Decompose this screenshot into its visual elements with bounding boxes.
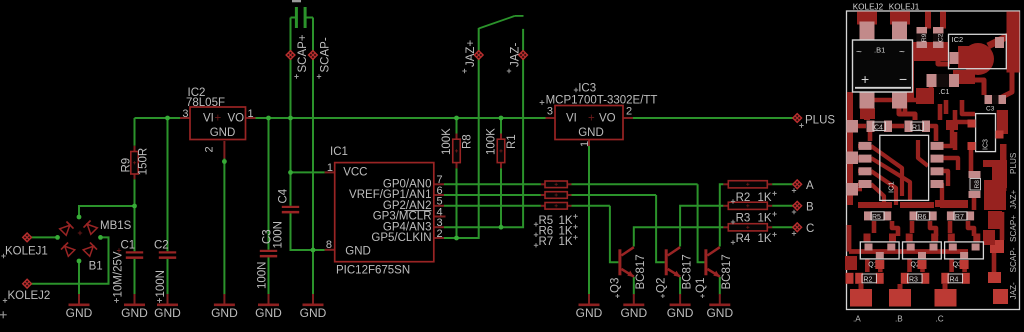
svg-text:GND: GND <box>706 306 733 320</box>
svg-text:8: 8 <box>326 239 332 251</box>
svg-text:+: + <box>588 113 595 125</box>
svg-text:PLUS: PLUS <box>805 115 835 127</box>
svg-text:C4: C4 <box>874 125 883 132</box>
svg-text:78L05F: 78L05F <box>186 97 225 109</box>
svg-text:GND: GND <box>121 306 148 320</box>
svg-text:GND: GND <box>667 306 694 320</box>
svg-text:+: + <box>215 113 222 125</box>
svg-text:MCP1700T-3302E/TT: MCP1700T-3302E/TT <box>546 95 658 107</box>
svg-text:SCAP+: SCAP+ <box>1009 215 1018 242</box>
svg-text:R7: R7 <box>955 214 964 221</box>
svg-text:R3: R3 <box>909 277 918 284</box>
svg-text:GND: GND <box>255 306 282 320</box>
svg-text:GND: GND <box>578 127 604 139</box>
svg-text:.A: .A <box>853 315 861 324</box>
svg-text:VO: VO <box>228 113 245 125</box>
svg-text:R2: R2 <box>736 192 751 204</box>
svg-text:GND: GND <box>620 306 647 320</box>
svg-text:100N: 100N <box>155 270 167 298</box>
svg-text:VO: VO <box>599 113 616 125</box>
svg-text:+: + <box>861 71 869 87</box>
svg-text:~: ~ <box>899 47 905 58</box>
svg-text:2: 2 <box>626 106 632 118</box>
svg-text:R2: R2 <box>863 277 872 284</box>
svg-text:150R: 150R <box>138 148 150 176</box>
svg-text:B: B <box>806 202 814 214</box>
svg-text:KOLEJ1: KOLEJ1 <box>5 245 48 257</box>
svg-text:A: A <box>806 180 814 192</box>
svg-text:R4: R4 <box>950 277 959 284</box>
svg-text:R5: R5 <box>872 214 881 221</box>
svg-text:IC3: IC3 <box>578 83 596 95</box>
svg-text:JAZ+: JAZ+ <box>1009 189 1018 209</box>
svg-text:IC2: IC2 <box>952 35 964 44</box>
svg-text:R9: R9 <box>921 33 928 42</box>
svg-text:100N: 100N <box>257 262 269 290</box>
svg-text:100N: 100N <box>273 221 285 249</box>
svg-text:.C1: .C1 <box>939 89 950 96</box>
svg-text:SCAP+: SCAP+ <box>297 34 309 72</box>
svg-text:KOLEJ2: KOLEJ2 <box>853 2 884 11</box>
svg-text:R1: R1 <box>506 134 518 149</box>
svg-text:IC1: IC1 <box>330 146 348 158</box>
svg-text:GND: GND <box>211 306 238 320</box>
svg-text:PLUS: PLUS <box>1009 152 1018 174</box>
svg-text:GND: GND <box>345 245 371 257</box>
svg-text:~: ~ <box>856 47 862 58</box>
svg-text:2: 2 <box>437 228 443 240</box>
svg-text:GND: GND <box>300 306 327 320</box>
svg-text:Q2: Q2 <box>655 278 667 293</box>
svg-text:VCC: VCC <box>343 167 367 179</box>
svg-text:VI: VI <box>566 113 577 125</box>
svg-text:JAZ-: JAZ- <box>510 43 522 67</box>
svg-text:1K: 1K <box>758 192 772 204</box>
svg-text:MB1S: MB1S <box>100 220 132 232</box>
svg-text:100K: 100K <box>486 128 498 155</box>
svg-text:10M/25V: 10M/25V <box>113 251 125 297</box>
svg-text:IC3: IC3 <box>983 139 990 150</box>
svg-text:C1: C1 <box>121 240 136 252</box>
svg-text:.B: .B <box>895 315 903 324</box>
svg-text:KOLEJ1: KOLEJ1 <box>889 2 920 11</box>
svg-text:.C: .C <box>936 315 944 324</box>
svg-text:BC817: BC817 <box>635 254 647 289</box>
svg-text:100K: 100K <box>441 128 453 155</box>
svg-text:BC817: BC817 <box>681 254 693 289</box>
svg-text:R1: R1 <box>912 125 921 132</box>
svg-text:1K: 1K <box>758 233 772 245</box>
svg-text:Q1: Q1 <box>695 278 707 293</box>
svg-text:C2: C2 <box>154 240 169 252</box>
svg-text:B1: B1 <box>89 261 103 273</box>
svg-text:2: 2 <box>204 146 216 152</box>
svg-text:1: 1 <box>248 108 254 120</box>
svg-text:3: 3 <box>547 106 553 118</box>
svg-text:IC1: IC1 <box>887 181 896 193</box>
svg-text:Q3: Q3 <box>609 278 621 293</box>
svg-text:R6: R6 <box>918 214 927 221</box>
svg-text:PIC12F675SN: PIC12F675SN <box>336 264 410 276</box>
svg-text:R7: R7 <box>539 236 554 248</box>
svg-text:1K: 1K <box>758 213 772 225</box>
svg-text:R3: R3 <box>736 213 751 225</box>
svg-text:1: 1 <box>579 141 591 147</box>
svg-text:KOLEJ2: KOLEJ2 <box>8 290 51 302</box>
svg-text:C2: C2 <box>938 33 945 42</box>
svg-text:JAZ-: JAZ- <box>1009 282 1018 300</box>
svg-text:R4: R4 <box>736 233 751 245</box>
svg-text:R9: R9 <box>121 158 133 173</box>
svg-text:−: − <box>899 71 907 87</box>
svg-text:C4: C4 <box>278 188 290 203</box>
svg-text:GND: GND <box>210 127 236 139</box>
svg-text:C: C <box>806 223 814 235</box>
svg-text:GP5/CLKIN: GP5/CLKIN <box>371 232 431 244</box>
svg-text:SCAP-: SCAP- <box>1009 247 1018 272</box>
svg-text:R8: R8 <box>462 134 474 149</box>
svg-text:BC817: BC817 <box>721 254 733 289</box>
svg-text:GND: GND <box>576 306 603 320</box>
svg-text:GND: GND <box>66 306 93 320</box>
svg-text:1K: 1K <box>559 236 573 248</box>
svg-text:C3: C3 <box>986 106 995 113</box>
svg-text:GND: GND <box>154 306 181 320</box>
svg-text:JAZ+: JAZ+ <box>465 40 477 67</box>
svg-text:R8: R8 <box>974 180 981 189</box>
svg-text:3: 3 <box>182 108 188 120</box>
svg-text:VI: VI <box>203 113 214 125</box>
svg-text:.B1: .B1 <box>874 46 885 55</box>
svg-text:1: 1 <box>327 162 333 174</box>
svg-text:SCAP-: SCAP- <box>320 37 332 72</box>
